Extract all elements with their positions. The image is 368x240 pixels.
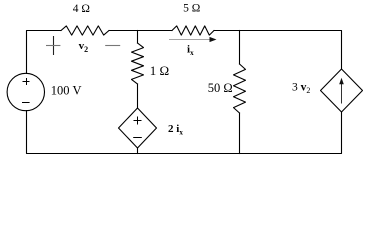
- svg-text:v2: v2: [79, 40, 89, 54]
- node B wire drop (between R2 and right corner): [239, 31, 241, 65]
- wire bottom rail right: [240, 112, 342, 154]
- svg-text:1 Ω: 1 Ω: [150, 63, 169, 78]
- dependent current source 3v2 diamond: [321, 69, 363, 112]
- svg-text:5 Ω: 5 Ω: [183, 3, 200, 15]
- v2 plus sign: [46, 36, 60, 55]
- resistor R1 4 ohm: [61, 26, 109, 35]
- dependent voltage source 2ix diamond: [119, 108, 157, 148]
- ix current arrowhead: [210, 37, 217, 42]
- wire left rail bottom: [27, 111, 138, 154]
- svg-text:2 ix: 2 ix: [168, 123, 183, 137]
- V1 plus polarity mark: [23, 78, 30, 85]
- 3v2 source arrow shaft: [341, 83, 343, 104]
- svg-text:100 V: 100 V: [51, 83, 82, 97]
- node A wire drop (between R1 and R2): [137, 31, 139, 44]
- wire top rail middle segment: [109, 30, 172, 32]
- svg-text:50 Ω: 50 Ω: [208, 81, 233, 95]
- wire R3 to dependent source: [137, 84, 139, 108]
- wire top rail right segment: [214, 31, 342, 70]
- voltage source V1 circle: [7, 73, 44, 110]
- resistor R2 5 ohm: [172, 26, 214, 35]
- resistor R4 50 ohm: [234, 64, 246, 113]
- wire 2ix source to bottom rail: [137, 148, 139, 154]
- 2ix source minus mark: [133, 137, 142, 139]
- 2ix source plus mark: [134, 117, 142, 125]
- svg-text:4 Ω: 4 Ω: [73, 3, 90, 15]
- wire top rail left segment: [27, 31, 62, 74]
- ix current arrow shaft: [169, 39, 210, 41]
- svg-text:3 v2: 3 v2: [292, 82, 310, 96]
- v2 minus sign: [105, 45, 120, 47]
- V1 minus polarity mark: [22, 102, 30, 104]
- resistor R3 1 ohm: [132, 43, 144, 84]
- 3v2 source arrowhead: [339, 78, 344, 85]
- wire R4 to bottom rail: [239, 113, 241, 154]
- wire bottom rail middle: [138, 153, 240, 155]
- svg-text:ix: ix: [187, 43, 194, 57]
